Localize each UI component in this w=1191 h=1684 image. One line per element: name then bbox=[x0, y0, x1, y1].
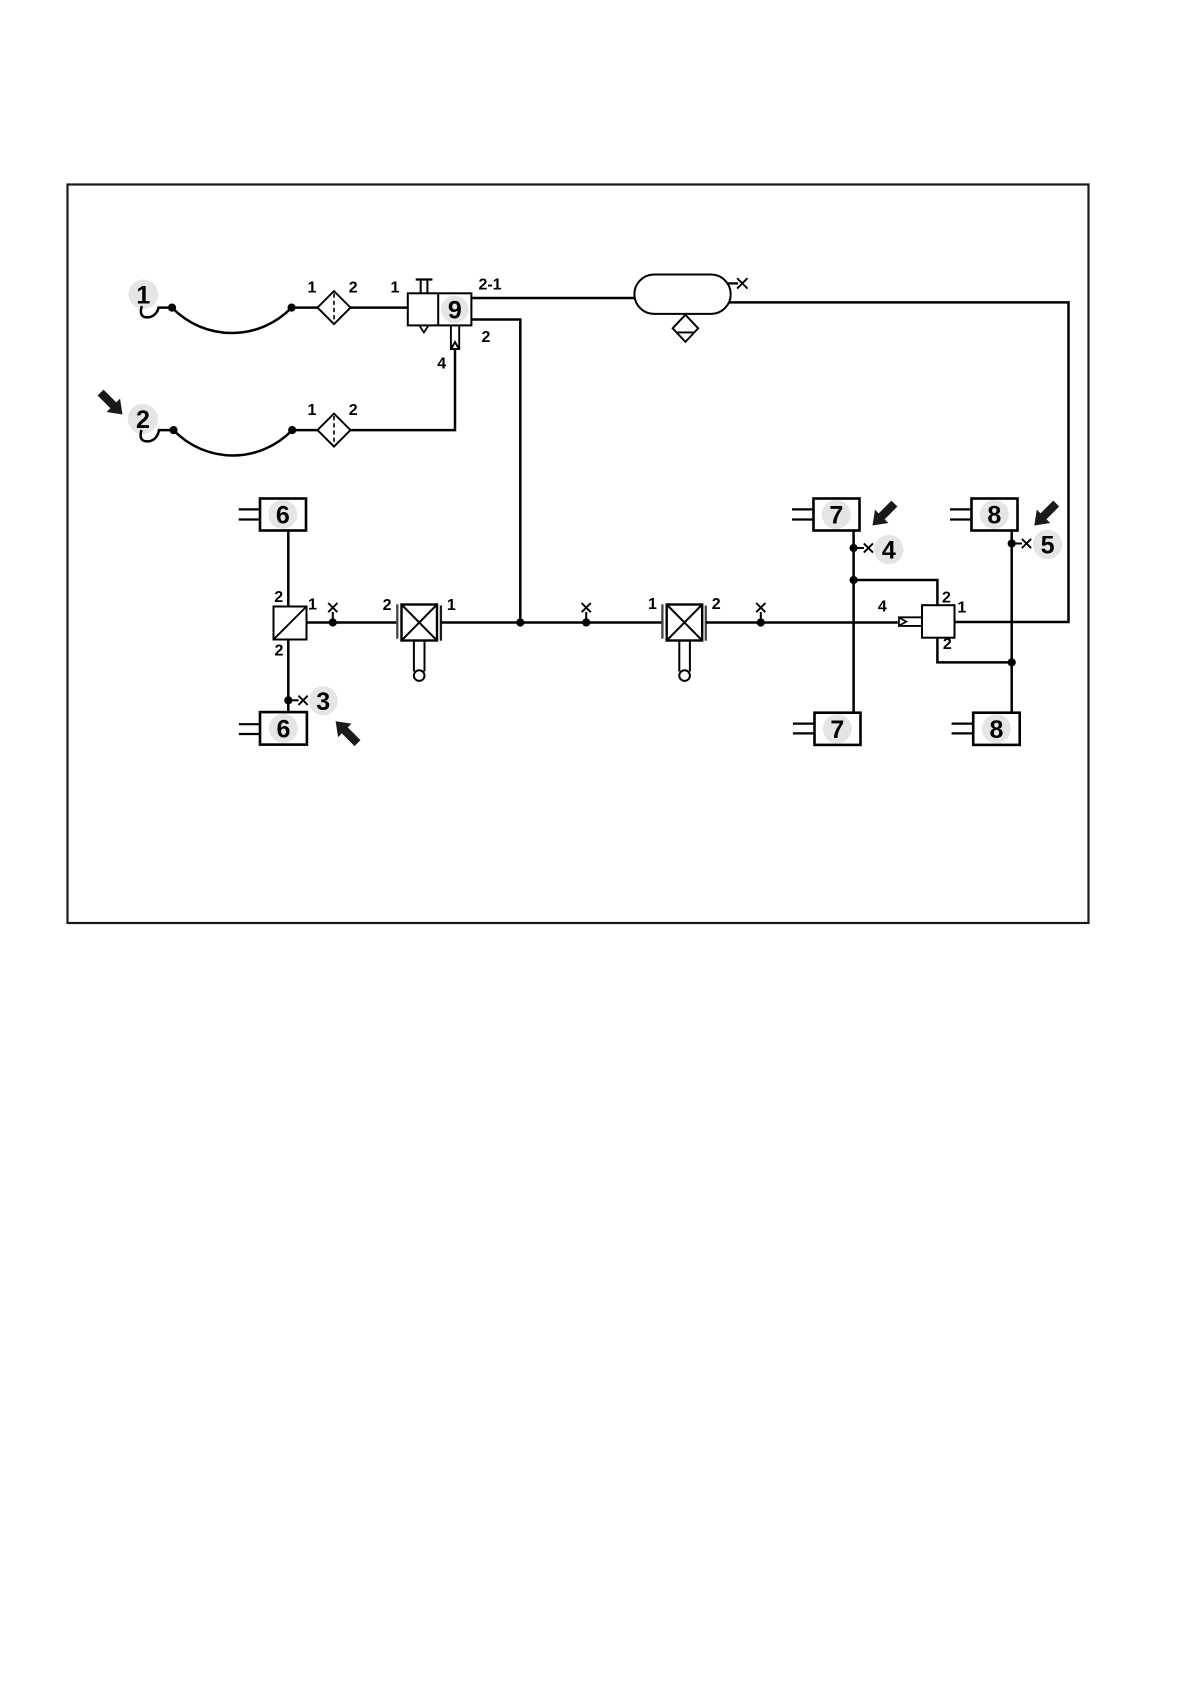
svg-text:2: 2 bbox=[136, 406, 150, 434]
drain valve under reservoir bbox=[673, 315, 699, 342]
svg-text:2: 2 bbox=[943, 636, 952, 653]
hose wire 2 bbox=[174, 430, 293, 455]
wire line 8 (connector 8 top to bottom) bbox=[1010, 531, 1013, 713]
test point 4: node dot and stub bbox=[850, 543, 874, 552]
svg-text:2: 2 bbox=[275, 643, 284, 660]
svg-text:1: 1 bbox=[391, 280, 400, 297]
filter F1 (line filter, row 1) bbox=[318, 291, 351, 324]
svg-text:2: 2 bbox=[712, 596, 721, 613]
unit 9 port 4 tube with check chevron bbox=[450, 325, 460, 349]
svg-text:2: 2 bbox=[482, 329, 491, 346]
test point 3: node dot and stub bbox=[284, 696, 308, 705]
svg-text:7: 7 bbox=[830, 716, 844, 744]
svg-text:8: 8 bbox=[987, 502, 1001, 530]
wire unit 9 port 4 to filter F2 bbox=[351, 349, 456, 430]
wire shuttle bottom to connector 6 bottom bbox=[287, 640, 290, 713]
callout 3 (test connection 3) bbox=[309, 686, 338, 716]
wire connector 6 top to shuttle bbox=[287, 531, 290, 607]
arrow marker at coupling 2 bbox=[94, 386, 129, 421]
svg-text:2: 2 bbox=[942, 590, 951, 607]
wire hook from coupling 2 bbox=[141, 430, 174, 441]
node dot bbox=[169, 426, 177, 434]
relay valve (pilot box) bbox=[899, 605, 955, 638]
svg-text:2: 2 bbox=[274, 589, 283, 606]
svg-text:4: 4 bbox=[437, 356, 446, 373]
svg-text:2-1: 2-1 bbox=[478, 277, 501, 294]
connector 7 bottom bbox=[793, 713, 861, 745]
shut-off valve V1 bbox=[397, 604, 441, 681]
svg-text:1: 1 bbox=[648, 596, 657, 613]
wire relay port 2 bottom to line 8 bbox=[937, 638, 1011, 663]
test point after valve V2 bbox=[756, 603, 765, 627]
unit 9 (multi-circuit protection valve) bbox=[408, 280, 472, 333]
svg-text:1: 1 bbox=[308, 597, 317, 614]
wire line 7 (connector 7 top to bottom) bbox=[852, 531, 855, 713]
junction dot (line 7 to relay port 2) bbox=[850, 576, 858, 584]
svg-text:2: 2 bbox=[383, 597, 392, 614]
svg-text:4: 4 bbox=[878, 599, 887, 616]
test connection stub at reservoir bbox=[727, 278, 748, 288]
wire to filter bbox=[292, 306, 318, 309]
svg-text:5: 5 bbox=[1041, 532, 1055, 560]
svg-text:6: 6 bbox=[276, 502, 290, 530]
wire hook from coupling 1 bbox=[141, 306, 172, 317]
wire shuttle to valve V1 bbox=[307, 621, 398, 624]
node dot bbox=[168, 304, 176, 312]
arrow marker at test connection 5 bbox=[1028, 497, 1063, 532]
node dot bbox=[288, 304, 296, 312]
connector 6 top bbox=[239, 499, 306, 531]
wire filter F1 to unit 9 port 1 bbox=[351, 306, 408, 309]
svg-text:2: 2 bbox=[349, 402, 358, 419]
main wire valve V2 to relay valve pilot bbox=[706, 621, 898, 624]
arrow marker at test connection 4 bbox=[866, 497, 901, 532]
connector 8 top bbox=[950, 499, 1018, 531]
callout 1 (supply coupling 1) bbox=[129, 280, 159, 310]
svg-text:1: 1 bbox=[957, 600, 966, 617]
connector 7 top bbox=[792, 499, 860, 531]
wire relay port 2 top to line 7 bbox=[854, 580, 938, 605]
wire unit 9 port 2-1 to reservoir bbox=[471, 297, 635, 300]
svg-text:7: 7 bbox=[829, 502, 843, 530]
svg-text:1: 1 bbox=[136, 281, 150, 309]
callout 2 (supply coupling 2) bbox=[128, 404, 158, 434]
main wire valve V1 to valve V2 bbox=[441, 621, 663, 624]
test point on wire bbox=[328, 603, 337, 627]
junction dot on line 8 bbox=[1008, 658, 1016, 666]
svg-text:2: 2 bbox=[349, 280, 358, 297]
svg-text:9: 9 bbox=[448, 296, 462, 324]
test point between valves bbox=[582, 603, 591, 627]
arrow marker at test connection 3 bbox=[329, 714, 364, 749]
svg-text:1: 1 bbox=[447, 597, 456, 614]
svg-text:6: 6 bbox=[276, 715, 290, 743]
wire unit 9 port 2 down to main line bbox=[471, 320, 520, 623]
wire reservoir output to relay valve port 1 bbox=[729, 302, 1069, 622]
wire to filter F2 bbox=[292, 429, 317, 432]
svg-text:4: 4 bbox=[882, 537, 896, 565]
connector 6 bottom bbox=[239, 712, 307, 745]
reservoir (air tank) bbox=[634, 275, 730, 314]
shut-off valve V2 bbox=[662, 604, 705, 681]
connector 8 bottom bbox=[952, 713, 1020, 745]
node dot bbox=[288, 426, 296, 434]
svg-text:1: 1 bbox=[308, 280, 317, 297]
shuttle valve (two-way valve, square with diagonal) bbox=[274, 607, 307, 640]
hose wire 1 bbox=[172, 308, 292, 333]
callout 5 (test connection 5) bbox=[1033, 530, 1062, 560]
svg-text:8: 8 bbox=[989, 716, 1003, 744]
junction dot (line from unit 9 port 2) bbox=[516, 618, 524, 626]
filter F2 (line filter, row 2) bbox=[318, 414, 351, 447]
svg-text:3: 3 bbox=[316, 688, 330, 716]
callout 4 (test connection 4) bbox=[874, 535, 903, 565]
svg-text:1: 1 bbox=[308, 402, 317, 419]
test point 5: node dot and stub bbox=[1008, 539, 1031, 548]
